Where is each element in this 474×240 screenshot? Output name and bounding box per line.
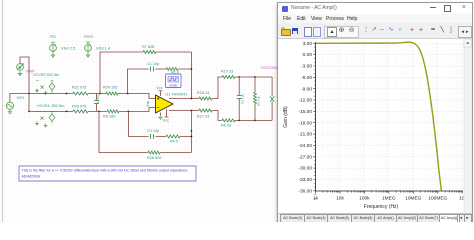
svg-text:Vcc: Vcc: [50, 34, 57, 39]
svg-text:VOUTDM: VOUTDM: [261, 66, 277, 70]
svg-text:-30.00: -30.00: [298, 166, 312, 172]
svg-text:ADxM200ck: ADxM200ck: [22, 175, 41, 179]
resistor R26 820: [147, 151, 161, 160]
svg-text:U1 THS4541: U1 THS4541: [166, 93, 188, 97]
node load top R: [254, 76, 256, 78]
svg-text:This is the filter for a +/- 0: This is the filter for a +/- 0.5025v dif…: [22, 169, 188, 173]
window buttons: [430, 7, 436, 8]
svg-text:R7 828: R7 828: [142, 45, 154, 49]
svg-text:C5 2.2p: C5 2.2p: [241, 93, 245, 104]
meter VM1 (open): [270, 77, 274, 120]
node load bottom C: [238, 120, 240, 122]
op-amp Vcc pin: [157, 86, 163, 96]
wire output+ row: [169, 77, 222, 99]
resistor R23 975: [72, 105, 88, 113]
ground pins of VCVS2: [35, 89, 47, 95]
wire R26 feedback loop: [99, 111, 191, 152]
svg-text:1k: 1k: [313, 196, 319, 202]
svg-text:R22 975: R22 975: [72, 86, 86, 90]
svg-text:-9.00: -9.00: [301, 86, 312, 92]
svg-text:-6.00: -6.00: [301, 75, 312, 81]
svg-text:R26 820: R26 820: [147, 156, 161, 160]
resistor R6 33: [221, 119, 235, 128]
svg-text:-36.00: -36.00: [298, 188, 312, 194]
resistor R24 165: [103, 86, 118, 96]
svg-text:10k: 10k: [336, 196, 344, 202]
svg-text:0.00: 0.00: [303, 52, 313, 58]
resistor R7 828: [142, 45, 156, 54]
node output-: [191, 110, 193, 112]
svg-text:-12.00: -12.00: [298, 98, 312, 104]
svg-text:R4 0: R4 0: [170, 140, 178, 144]
analysis window frame: [277, 2, 473, 223]
svg-text:C3 10p: C3 10p: [147, 129, 159, 133]
node C3 join: [191, 136, 193, 138]
controlled source VCVS2 502.5m: [33, 73, 59, 94]
plot grid: [323, 43, 461, 191]
gain curve: [316, 42, 442, 190]
ground below VS3: [86, 53, 90, 57]
ground below VINP: [18, 71, 22, 75]
wire C3 feedback loop: [128, 111, 191, 136]
svg-text:Vcc: Vcc: [163, 119, 169, 123]
node C1/R7 join: [191, 68, 193, 70]
svg-text:1MEG: 1MEG: [382, 196, 396, 202]
ground pins of VCVS4: [35, 122, 47, 128]
svg-text:-33.00: -33.00: [298, 177, 312, 183]
wire output- row: [169, 111, 222, 121]
voltmeter VINP: [17, 64, 36, 74]
wire control bus vertical: [28, 94, 30, 112]
svg-text:VS3 1.4: VS3 1.4: [96, 46, 111, 51]
svg-text:Gain (dB): Gain (dB): [283, 106, 289, 128]
svg-text:-15.00: -15.00: [298, 109, 312, 115]
wire feedback vertical to output+: [190, 52, 192, 99]
capacitor C3 10p: [147, 129, 159, 139]
voltage source VS4 2.5 (Vcc): [50, 34, 77, 53]
voltage source VS3 1.4 (Vocm): [84, 34, 112, 53]
plot axes: [316, 42, 464, 191]
schematic window left border: [2, 0, 4, 222]
ground below VS4: [51, 53, 55, 57]
svg-text:VCVS2 502.5m: VCVS2 502.5m: [33, 73, 59, 77]
node bottom rail / R26 branch: [98, 111, 100, 113]
node output+: [191, 98, 193, 100]
voltage generator VG1: [6, 95, 25, 109]
svg-text:VS4 2.5: VS4 2.5: [61, 46, 76, 51]
resistor R28 24: [197, 91, 212, 100]
capacitor C5 2.2p load: [237, 77, 245, 120]
svg-text:Vcc: Vcc: [157, 86, 163, 90]
annotation note box: [19, 166, 196, 181]
window title bar: [278, 3, 472, 14]
ground below VG1: [8, 110, 12, 114]
resistor R27 24: [197, 109, 212, 119]
capacitor C1 10p: [147, 62, 159, 71]
node load bottom R: [254, 120, 256, 122]
controlled source VCVS4 -502.5m: [36, 104, 64, 124]
op-amp PD pin (Vcc): [163, 109, 169, 123]
resistor R4 0: [166, 135, 180, 144]
svg-text:VG1: VG1: [17, 95, 26, 100]
node top rail / R7 branch: [99, 93, 101, 95]
svg-text:R28 24: R28 24: [197, 91, 209, 95]
svg-text:VCVS4 -502.5m: VCVS4 -502.5m: [37, 104, 64, 108]
node bottom rail / C3 branch: [127, 111, 129, 113]
svg-text:C1 10p: C1 10p: [147, 62, 159, 66]
node VCVS2 output: [66, 93, 68, 95]
wire bottom rail: [29, 108, 156, 112]
svg-text:-24.00: -24.00: [298, 143, 312, 149]
wire R7 feedback loop: [100, 52, 191, 94]
window icon: [282, 6, 288, 12]
plot scrollbar: [464, 39, 472, 214]
svg-text:R24 165: R24 165: [103, 86, 117, 90]
resistor R6 165: [103, 110, 119, 119]
node VCVS4 output: [66, 111, 68, 113]
resistor R10 33: [221, 70, 235, 79]
svg-text:R5 4.3k: R5 4.3k: [257, 95, 261, 106]
svg-text:-3.00: -3.00: [301, 64, 312, 70]
svg-text:R6 33: R6 33: [221, 124, 231, 128]
svg-text:R6 165: R6 165: [103, 115, 115, 119]
resistor R5 4.3k load: [254, 77, 261, 120]
result tab bar: [278, 213, 472, 223]
node load top C: [238, 76, 240, 78]
wire top rail: [29, 94, 156, 99]
resistor R22 975: [72, 86, 88, 96]
svg-text:-18.00: -18.00: [298, 120, 312, 126]
wire load network rails: [235, 77, 272, 120]
svg-text:R23 975: R23 975: [72, 105, 86, 109]
capacitor C2 39p across rails: [94, 94, 100, 112]
svg-text:R10 33: R10 33: [221, 70, 233, 74]
resistor R1 0: [166, 68, 179, 75]
menu bar: [278, 14, 472, 23]
svg-text:Vinp: Vinp: [146, 100, 150, 107]
toolbar: [278, 23, 472, 39]
svg-text:Vocm: Vocm: [84, 34, 95, 39]
instrument block U2 mode: [166, 74, 182, 88]
node top rail / C1 branch: [127, 93, 129, 95]
svg-text:100k: 100k: [359, 196, 370, 202]
plot area: [278, 38, 472, 216]
node VG1/VINP junction: [28, 93, 30, 95]
svg-text:3.00: 3.00: [303, 41, 313, 47]
node feedback join: [191, 130, 193, 132]
op-amp U1 THS4541: [156, 93, 188, 114]
wire VINP to control node: [20, 57, 29, 94]
svg-text:100MEG: 100MEG: [428, 196, 447, 202]
toolbar icons: [281, 29, 291, 36]
svg-text:Frequency (Hz): Frequency (Hz): [364, 204, 399, 210]
svg-text:C2 39p: C2 39p: [96, 94, 100, 104]
op-amp Vss pin to ground: [158, 113, 162, 120]
svg-text:-21.00: -21.00: [298, 132, 312, 138]
wire feedback vertical output-: [190, 111, 192, 153]
wire C1 feedback loop: [128, 69, 192, 94]
window title text: [291, 5, 337, 11]
svg-text:R27 24: R27 24: [197, 115, 209, 119]
node control/lower rail: [28, 111, 30, 113]
wire VG1 to rail: [10, 94, 29, 103]
svg-text:-27.00: -27.00: [298, 154, 312, 160]
svg-text:10MEG: 10MEG: [405, 196, 422, 202]
svg-text:mode: mode: [169, 83, 177, 87]
